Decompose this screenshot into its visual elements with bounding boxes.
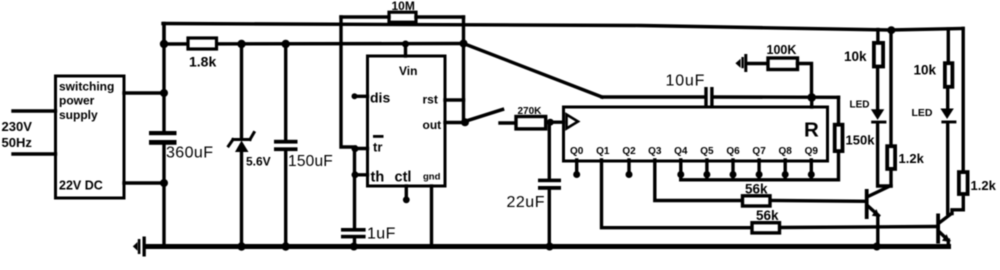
ground: [133, 237, 146, 257]
wire R pin: [810, 97, 813, 107]
wire 150uF bottom: [284, 151, 287, 247]
svg-text:Q6: Q6: [726, 146, 740, 157]
wire 10uF to reset corner: [714, 95, 839, 99]
wire 22uF top: [548, 122, 551, 179]
wire Vin pin: [404, 44, 407, 56]
junction: [873, 243, 881, 251]
wire 22uF bottom: [548, 188, 551, 247]
wire mains input upper: [13, 109, 56, 112]
resistor 10k second: [914, 63, 953, 87]
svg-text:150uF: 150uF: [288, 153, 333, 170]
wire Q2 pin stub: [627, 160, 630, 172]
junction: [546, 243, 554, 251]
svg-text:Q3: Q3: [648, 146, 662, 157]
resistor 150k: [835, 125, 875, 151]
wire rst pin stub: [445, 98, 464, 101]
resistor 10k first: [844, 43, 883, 67]
wire mains input lower: [13, 152, 56, 155]
wire out pin stub: [445, 121, 465, 124]
svg-text:1.2k: 1.2k: [971, 178, 997, 193]
wire 1uF bottom: [353, 238, 356, 246]
junction: [160, 179, 168, 187]
wire PSU output minus: [124, 181, 164, 184]
wire ground to 100K: [747, 62, 768, 65]
svg-text:Q1: Q1: [596, 146, 610, 157]
junction out node: [461, 118, 469, 126]
wire Q1 emitter down: [876, 216, 879, 245]
junction: [350, 243, 358, 251]
resistor 56k first: [743, 182, 771, 207]
svg-text:Q9: Q9: [805, 146, 819, 157]
svg-text:ctl: ctl: [395, 170, 412, 186]
wire collector diagonal Q1: [869, 186, 890, 196]
wire 10k second branch from rail: [947, 29, 950, 62]
resistor 1.2k first: [887, 146, 924, 169]
wire top rail right corner down: [962, 29, 965, 171]
wire Q2 emitter to rail end: [947, 240, 950, 247]
wire Q7 pin stub: [757, 160, 760, 180]
wire gnd pin: [430, 186, 433, 244]
wire top-left corner drop: [162, 24, 165, 45]
capacitor 10uF: [666, 73, 714, 107]
wire Q6 pin stub: [731, 160, 734, 180]
wire left supply rail upper: [162, 24, 165, 132]
svg-text:50Hz: 50Hz: [2, 135, 33, 150]
svg-text:th: th: [371, 170, 385, 186]
wire LED1 to collector node: [878, 124, 891, 187]
junction Q0 pin end: [573, 171, 580, 178]
junction R node: [807, 93, 816, 102]
junction: [352, 171, 359, 178]
wire 150k top lead: [837, 97, 840, 124]
capacitor 360uF: [149, 131, 213, 162]
svg-text:10k: 10k: [914, 63, 937, 78]
node 230V 50Hz mains input: [2, 119, 33, 150]
switching power supply PS1: [56, 76, 125, 198]
svg-text:Q4: Q4: [674, 146, 688, 157]
wire LED2 to collector node: [946, 123, 949, 213]
transistor Q2: [936, 214, 950, 244]
svg-text:gnd: gnd: [423, 172, 441, 183]
wire Q4 pin stub: [679, 160, 682, 180]
wire PSU output plus: [124, 91, 164, 94]
wire reset node line: [602, 95, 705, 98]
ground at 100K: [735, 54, 747, 72]
wire 56k2 line to transistor Q2 base: [780, 227, 935, 228]
junction: [782, 171, 789, 178]
svg-text:Vin: Vin: [399, 64, 417, 78]
junction: [282, 40, 290, 48]
wire 10M loop top left: [341, 15, 389, 18]
junction: [237, 242, 245, 250]
wire 1.2k first top lead: [889, 30, 892, 146]
svg-text:5.6V: 5.6V: [246, 155, 271, 169]
junction 1.2k first top: [887, 26, 895, 34]
LED D1: [850, 100, 887, 124]
wire main Vcc rail: [164, 42, 464, 46]
svg-text:rst: rst: [423, 93, 438, 107]
wire ctl pin stub: [405, 186, 408, 197]
svg-text:R: R: [804, 119, 819, 142]
wire th pin stub: [355, 173, 368, 176]
wire tr pin stub: [355, 147, 368, 150]
svg-text:Q7: Q7: [752, 146, 766, 157]
IC 555 timer U1: [368, 56, 446, 186]
resistor 100K: [767, 43, 798, 70]
junction: [547, 119, 554, 126]
junction: [282, 242, 290, 250]
wire Q0 pin stub: [575, 160, 578, 172]
svg-text:230V: 230V: [2, 119, 33, 134]
svg-text:100K: 100K: [767, 43, 797, 57]
capacitor 1uF: [341, 226, 396, 243]
wire timing node vertical: [353, 149, 356, 229]
junction: [677, 171, 684, 178]
wire 10k2 to LED2: [946, 88, 949, 109]
svg-text:Q2: Q2: [622, 146, 636, 157]
wire ground rail: [146, 244, 949, 249]
wire rst/out vertical: [462, 44, 465, 123]
junction ctl pin end: [403, 196, 410, 203]
resistor 10M: [389, 0, 416, 22]
svg-text:1.8k: 1.8k: [189, 54, 216, 70]
capacitor 22uF: [507, 179, 562, 211]
transistor Q1: [865, 189, 880, 219]
wire switch fixed contact: [500, 121, 516, 124]
svg-text:360uF: 360uF: [166, 145, 213, 162]
wire 270K to clock: [546, 120, 564, 123]
wire diagonal to counter reset line: [464, 44, 603, 98]
zener diode 5.6V: [229, 133, 271, 169]
junction Q2 pin end: [626, 171, 633, 178]
wire 150uF top: [284, 44, 287, 140]
wire top Vcc rail: [163, 24, 963, 31]
svg-text:LED: LED: [912, 107, 933, 119]
junction: [352, 145, 359, 152]
wire 1.2k second bottom lead: [952, 198, 963, 214]
wire 10k first branch from rail: [876, 30, 879, 42]
resistor 1.2k second: [959, 172, 997, 194]
svg-text:tr: tr: [373, 140, 382, 155]
wire Q9 pin stub: [810, 160, 813, 180]
junction dis pin end: [352, 93, 358, 99]
resistor 1.8k: [188, 38, 217, 70]
IC 4017 decade counter U2: [564, 107, 828, 161]
wire 10M right leg: [462, 17, 465, 44]
wire Q4-Q9 bus to 150k: [681, 154, 839, 180]
svg-text:dis: dis: [370, 90, 390, 106]
svg-text:out: out: [423, 118, 442, 132]
svg-text:Q5: Q5: [700, 146, 714, 157]
capacitor 150uF: [274, 140, 333, 170]
wire zener top: [240, 44, 243, 139]
svg-text:power: power: [59, 94, 95, 108]
wire 10M left leg down to tr node: [341, 17, 355, 147]
svg-text:1.2k: 1.2k: [899, 151, 925, 166]
wire collector diagonal Q2: [940, 214, 952, 223]
svg-text:10k: 10k: [844, 49, 867, 64]
svg-text:LED: LED: [850, 100, 870, 111]
wire zener bottom: [240, 151, 243, 247]
LED D2: [912, 107, 957, 124]
wire dis pin stub: [355, 95, 368, 98]
svg-text:22V DC: 22V DC: [59, 179, 103, 193]
wire 56k1 line to transistor Q1 base: [771, 199, 865, 203]
svg-text:270K: 270K: [518, 106, 543, 117]
junction: [160, 89, 168, 97]
svg-text:supply: supply: [59, 108, 98, 122]
svg-text:Q0: Q0: [570, 146, 584, 157]
svg-text:10M: 10M: [392, 0, 415, 13]
junction: [703, 171, 710, 178]
junction: [730, 171, 737, 178]
svg-text:150k: 150k: [846, 132, 876, 147]
junction: [160, 40, 168, 48]
wire Q8 pin stub: [784, 160, 787, 180]
svg-text:56k: 56k: [745, 182, 768, 197]
junction: [402, 41, 409, 48]
wire left supply rail lower: [162, 144, 165, 247]
svg-text:22uF: 22uF: [507, 194, 545, 211]
junction node A: [460, 40, 468, 48]
svg-text:10uF: 10uF: [666, 73, 706, 90]
junction: [756, 171, 763, 178]
svg-text:1uF: 1uF: [367, 226, 396, 243]
wire Q1 output to 56k: [602, 160, 753, 228]
svg-text:Q8: Q8: [779, 146, 793, 157]
wire Q3 output to 56k: [655, 160, 743, 201]
wire 10k to LED1: [876, 68, 879, 110]
resistor 270K: [516, 106, 546, 129]
wire 100K to R node: [798, 64, 812, 96]
svg-text:56k: 56k: [756, 208, 779, 223]
svg-text:switching: switching: [59, 80, 114, 94]
wire 10M loop top right: [416, 15, 464, 18]
switch S1 lever: [466, 110, 503, 122]
wire 1.2k first bottom lead: [889, 171, 892, 186]
wire Q5 pin stub: [705, 160, 708, 180]
junction: [237, 40, 245, 48]
resistor 56k second: [752, 208, 780, 233]
junction: [808, 171, 815, 178]
